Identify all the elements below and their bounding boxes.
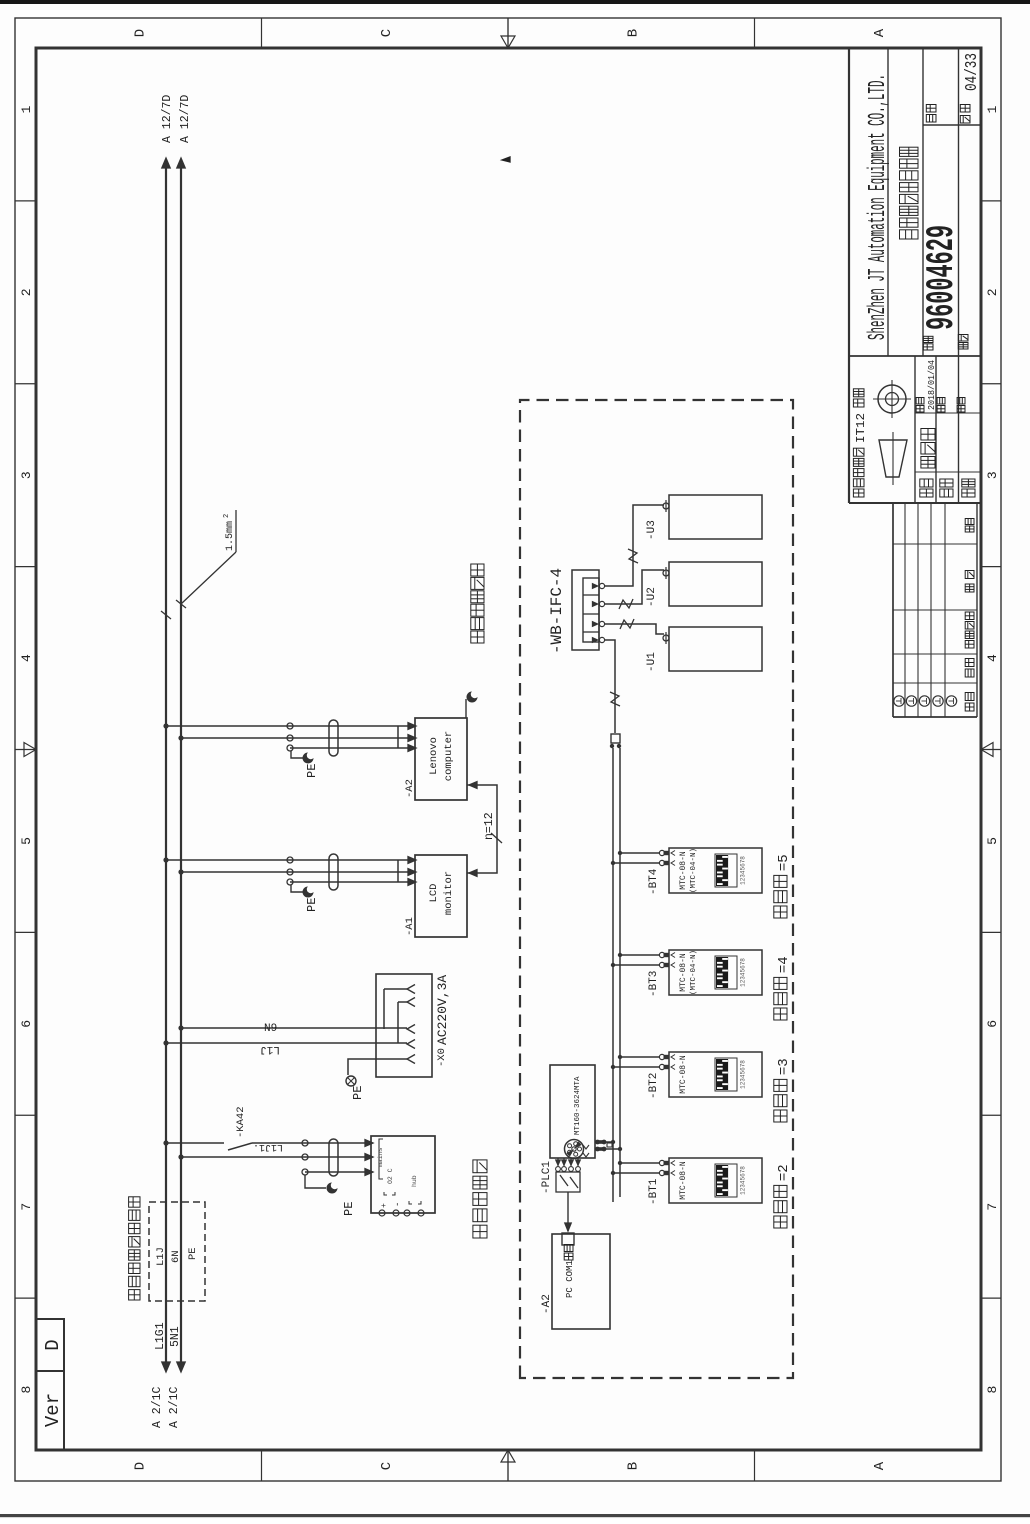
svg-text:D: D: [132, 29, 148, 37]
svg-text:Ver: Ver: [42, 1393, 64, 1427]
svg-text:MTC-08-N: MTC-08-N: [679, 953, 688, 992]
svg-text:-WB-IFC-4: -WB-IFC-4: [548, 568, 566, 654]
svg-text:L1G1: L1G1: [154, 1322, 167, 1350]
svg-text:-U2: -U2: [646, 587, 658, 607]
svg-text:6: 6: [985, 1020, 1000, 1028]
svg-text:8: 8: [19, 1386, 34, 1394]
svg-text:-BT3: -BT3: [648, 971, 660, 997]
svg-text:A 2/1C: A 2/1C: [151, 1386, 164, 1428]
svg-text:MTC-08-N: MTC-08-N: [679, 1055, 688, 1094]
svg-text:-PLC1: -PLC1: [541, 1161, 553, 1194]
svg-text:PE: PE: [187, 1247, 199, 1260]
svg-text:n=12: n=12: [483, 812, 496, 840]
svg-text:LCD: LCD: [428, 884, 440, 903]
svg-text:12345678: 12345678: [740, 1060, 747, 1089]
svg-text:IT12: IT12: [854, 413, 868, 443]
svg-text:Lenovo: Lenovo: [428, 737, 440, 775]
svg-text:3: 3: [19, 471, 34, 479]
svg-text:1: 1: [985, 105, 1000, 113]
svg-text:computer: computer: [443, 731, 455, 781]
svg-text:7: 7: [19, 1203, 34, 1211]
svg-text:N9: N9: [264, 1023, 277, 1035]
svg-text:PE: PE: [305, 898, 319, 912]
svg-text:PE: PE: [351, 1086, 365, 1100]
svg-text:1.5mm: 1.5mm: [225, 521, 236, 551]
svg-text:2: 2: [985, 288, 1000, 296]
svg-text:A 12/7D: A 12/7D: [179, 95, 192, 143]
svg-text:+: +: [380, 1203, 389, 1208]
svg-text:7: 7: [985, 1203, 1000, 1211]
svg-text:(MTC-04-N): (MTC-04-N): [690, 848, 698, 893]
svg-text:-BT2: -BT2: [648, 1073, 660, 1099]
svg-text:-: -: [393, 1202, 403, 1207]
svg-text:=3: =3: [776, 1058, 792, 1075]
svg-text:4: 4: [985, 654, 1000, 662]
svg-text:-BT4: -BT4: [648, 868, 660, 895]
svg-text:-U3: -U3: [646, 520, 658, 540]
svg-text:hub: hub: [411, 1175, 418, 1187]
svg-text:B: B: [625, 1462, 641, 1470]
svg-text:(MTC-04-N): (MTC-04-N): [690, 950, 698, 995]
svg-text:MTC-08-N: MTC-08-N: [679, 851, 688, 890]
svg-text:O2 C: O2 C: [387, 1168, 394, 1184]
svg-text:C: C: [379, 1462, 395, 1470]
svg-text:monitor: monitor: [443, 871, 455, 915]
svg-text:12345678: 12345678: [740, 856, 747, 885]
svg-text:B: B: [625, 29, 641, 37]
svg-text:12345678: 12345678: [740, 1166, 747, 1195]
svg-text:=4: =4: [776, 956, 792, 973]
svg-text:2: 2: [19, 288, 34, 296]
svg-text:=2: =2: [776, 1164, 792, 1181]
svg-text:-A2: -A2: [404, 779, 416, 798]
svg-text:2: 2: [223, 514, 231, 518]
svg-text:-A1: -A1: [404, 917, 416, 936]
svg-text:5N1: 5N1: [169, 1326, 182, 1347]
svg-text:2018/01/04: 2018/01/04: [927, 360, 937, 410]
svg-text:8: 8: [985, 1386, 1000, 1394]
svg-text:L1J: L1J: [155, 1247, 167, 1266]
svg-text:3: 3: [985, 471, 1000, 479]
svg-text:6: 6: [19, 1020, 34, 1028]
svg-text:C: C: [379, 29, 395, 37]
svg-text:4: 4: [19, 654, 34, 662]
svg-text:PE: PE: [305, 764, 319, 778]
svg-text:5: 5: [985, 837, 1000, 845]
svg-text:PC COM1: PC COM1: [565, 1260, 575, 1298]
svg-text:mains: mains: [377, 1147, 384, 1167]
svg-text:04/33: 04/33: [963, 53, 982, 91]
svg-text:L1J: L1J: [260, 1043, 280, 1055]
svg-text:-U1: -U1: [646, 652, 658, 672]
svg-text:-BT1: -BT1: [648, 1178, 660, 1205]
svg-text:1: 1: [19, 105, 34, 113]
svg-text:6N: 6N: [170, 1250, 182, 1263]
svg-text:A 12/7D: A 12/7D: [161, 95, 174, 143]
svg-text:-X0: -X0: [436, 1048, 448, 1067]
svg-text:AC220V,3A: AC220V,3A: [435, 975, 450, 1045]
svg-text:D: D: [132, 1462, 148, 1470]
svg-text:ShenZhen JT Automation Equipme: ShenZhen JT Automation Equipment CO.,LTD…: [865, 74, 892, 340]
svg-text:PE: PE: [342, 1202, 356, 1216]
svg-text:L1J1.: L1J1.: [253, 1141, 283, 1152]
svg-text:5: 5: [19, 837, 34, 845]
svg-text:MT160-3624MTA: MT160-3624MTA: [574, 1076, 582, 1135]
svg-text:-KA42: -KA42: [235, 1106, 247, 1138]
svg-text:96004629: 96004629: [920, 225, 964, 330]
svg-text:=5: =5: [776, 854, 792, 871]
svg-text:D: D: [42, 1339, 64, 1350]
svg-text:-A2: -A2: [541, 1294, 553, 1314]
svg-text:A: A: [872, 28, 888, 37]
svg-text:12345678: 12345678: [740, 958, 747, 987]
svg-text:A 2/1C: A 2/1C: [168, 1386, 181, 1428]
svg-text:A: A: [872, 1461, 888, 1470]
svg-text:MTC-08-N: MTC-08-N: [679, 1161, 688, 1200]
